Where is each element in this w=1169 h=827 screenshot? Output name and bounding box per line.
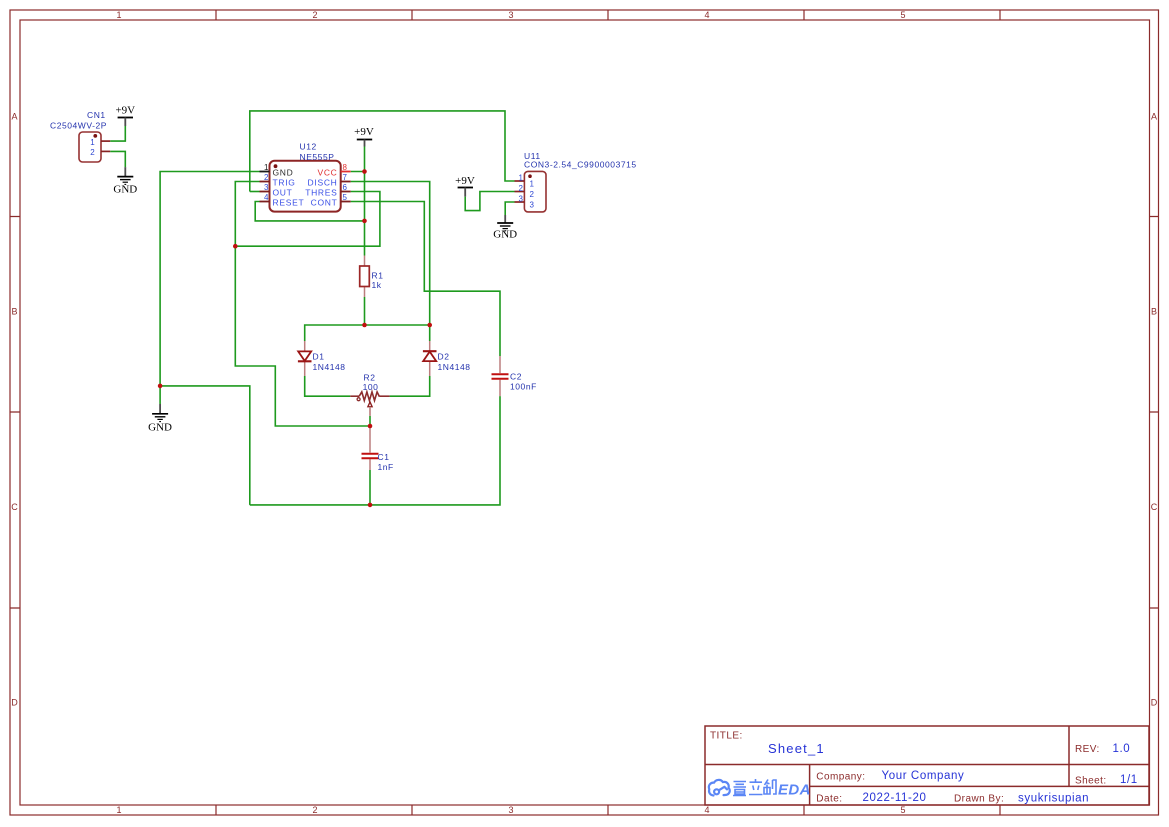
svg-text:REV:: REV: xyxy=(1075,744,1100,755)
wire VCC rail xyxy=(351,172,365,256)
svg-text:1: 1 xyxy=(116,10,121,20)
logo JLCEDA xyxy=(709,780,730,796)
wire U11 pin3 to GND xyxy=(505,202,514,215)
svg-text:4: 4 xyxy=(704,10,709,20)
wire CN1 pin2 to GND xyxy=(110,151,125,167)
svg-text:+9V: +9V xyxy=(354,126,374,138)
svg-text:2: 2 xyxy=(312,805,317,815)
node VCC junction xyxy=(362,169,367,174)
node C1 top junction xyxy=(368,424,373,429)
svg-text:5: 5 xyxy=(900,805,905,815)
svg-text:+9V: +9V xyxy=(455,175,475,187)
svg-text:GND: GND xyxy=(113,184,137,196)
wire D1 bottom to R2 xyxy=(305,376,351,396)
svg-text:OUT: OUT xyxy=(273,188,293,198)
ground GND left xyxy=(148,404,172,434)
svg-text:CN1: CN1 xyxy=(87,110,106,120)
capacitor C1 xyxy=(362,426,394,472)
svg-text:U12: U12 xyxy=(300,142,317,152)
svg-text:2: 2 xyxy=(264,173,269,182)
svg-text:8: 8 xyxy=(343,163,348,172)
svg-text:CONT: CONT xyxy=(311,198,338,208)
ground GND at CN1 xyxy=(113,167,137,195)
power +9V at U12 xyxy=(354,126,374,147)
svg-text:C1: C1 xyxy=(378,452,390,462)
svg-text:1: 1 xyxy=(530,180,535,189)
svg-text:3: 3 xyxy=(508,805,513,815)
svg-text:1k: 1k xyxy=(372,280,382,290)
U12 pin 6 THRES xyxy=(341,191,351,193)
U12 pin 4 RESET xyxy=(260,201,270,203)
svg-text:B: B xyxy=(1151,307,1157,317)
svg-text:A: A xyxy=(11,112,17,122)
connector CN1 xyxy=(50,110,110,162)
svg-text:C2: C2 xyxy=(510,372,522,382)
svg-text:TRIG: TRIG xyxy=(273,178,296,188)
capacitor C2 xyxy=(492,356,537,396)
frame column labels top xyxy=(116,10,905,20)
svg-text:6: 6 xyxy=(343,183,348,192)
svg-text:1: 1 xyxy=(116,805,121,815)
wire DISCH vertical xyxy=(351,182,430,326)
wire bottom rail xyxy=(250,396,500,505)
svg-text:D: D xyxy=(1151,698,1158,708)
svg-text:1: 1 xyxy=(519,174,524,183)
wire +9V drop at U12 xyxy=(364,147,366,172)
svg-text:D: D xyxy=(11,698,18,708)
node DISCH junction xyxy=(427,323,432,328)
svg-text:Sheet_1: Sheet_1 xyxy=(768,741,825,756)
svg-text:NE555P: NE555P xyxy=(300,152,335,162)
svg-text:TITLE:: TITLE: xyxy=(710,731,743,742)
svg-text:2: 2 xyxy=(312,10,317,20)
svg-text:1: 1 xyxy=(90,138,95,147)
svg-text:2022-11-20: 2022-11-20 xyxy=(863,792,927,804)
svg-text:3: 3 xyxy=(519,195,524,204)
svg-text:1: 1 xyxy=(264,163,269,172)
svg-text:2: 2 xyxy=(90,148,95,157)
wire RESET to VCC rail xyxy=(255,202,364,221)
wire top rail OUT net xyxy=(250,111,515,192)
svg-text:3: 3 xyxy=(264,183,269,192)
svg-text:B: B xyxy=(11,307,17,317)
svg-text:syukrisupian: syukrisupian xyxy=(1018,793,1089,805)
svg-text:C: C xyxy=(1151,502,1158,512)
svg-text:GND: GND xyxy=(148,422,172,434)
wire U11 pin2 to +9V xyxy=(465,192,514,211)
svg-text:C: C xyxy=(11,502,18,512)
svg-text:CON3-2.54_C9900003715: CON3-2.54_C9900003715 xyxy=(524,160,637,170)
svg-text:2: 2 xyxy=(519,184,524,193)
U12 pin 2 TRIG xyxy=(260,181,270,183)
node R1-diodes junction xyxy=(362,323,367,328)
wire diode top rail xyxy=(305,325,430,341)
svg-text:100nF: 100nF xyxy=(510,382,537,392)
svg-text:GND: GND xyxy=(273,168,294,178)
svg-text:1N4148: 1N4148 xyxy=(313,362,346,372)
wire R1 bottom to diode rail xyxy=(364,297,366,325)
svg-text:5: 5 xyxy=(343,193,348,202)
svg-text:R2: R2 xyxy=(364,373,376,383)
wire GND branch to bottom rail xyxy=(160,386,250,505)
svg-text:GND: GND xyxy=(493,229,517,241)
wire TRIG-THRES link xyxy=(235,192,380,247)
svg-text:2: 2 xyxy=(530,190,535,199)
svg-text:VCC: VCC xyxy=(317,168,337,178)
wire wiper to C1 top xyxy=(369,416,371,426)
resistor R1 xyxy=(360,256,384,298)
svg-text:D2: D2 xyxy=(438,352,450,362)
node GND junction xyxy=(158,384,163,389)
svg-text:4: 4 xyxy=(704,805,709,815)
svg-text:3: 3 xyxy=(508,10,513,20)
svg-text:C2504WV-2P: C2504WV-2P xyxy=(50,121,107,131)
U12 pin 1 GND xyxy=(260,171,270,173)
svg-text:100: 100 xyxy=(363,382,379,392)
svg-text:1nF: 1nF xyxy=(378,462,394,472)
svg-text:D1: D1 xyxy=(313,352,325,362)
svg-text:DISCH: DISCH xyxy=(308,178,338,188)
node RESET junction xyxy=(362,219,367,224)
svg-text:THRES: THRES xyxy=(305,188,337,198)
wire CONT to C2 xyxy=(351,202,500,357)
frame column labels bottom xyxy=(116,805,905,815)
diode D2 xyxy=(423,341,471,376)
node TRIG junction xyxy=(233,244,238,249)
svg-text:R1: R1 xyxy=(372,271,384,281)
potentiometer R2 xyxy=(350,373,389,416)
power +9V at U11 xyxy=(455,175,475,197)
U12 pin 3 OUT xyxy=(260,191,270,193)
svg-text:+9V: +9V xyxy=(115,105,135,117)
wire CN1 pin1 to +9V xyxy=(110,126,125,141)
wire GND pin1 to left xyxy=(160,172,259,405)
frame row labels xyxy=(11,112,1158,708)
U12 pin 7 DISCH xyxy=(341,181,351,183)
op-amp U12 NE555P xyxy=(260,142,351,212)
U12 pin 8 VCC xyxy=(341,171,351,173)
svg-text:Sheet:: Sheet: xyxy=(1075,776,1107,787)
svg-text:Date:: Date: xyxy=(816,794,842,805)
svg-text:1N4148: 1N4148 xyxy=(438,362,471,372)
U12 pin 5 CONT xyxy=(341,201,351,203)
wire TRIG net xyxy=(235,182,370,427)
svg-text:5: 5 xyxy=(900,10,905,20)
title block xyxy=(705,726,1149,805)
ground GND at U11 xyxy=(493,215,517,241)
diode D1 xyxy=(298,341,346,376)
svg-text:Drawn By:: Drawn By: xyxy=(954,794,1004,805)
svg-text:7: 7 xyxy=(343,173,348,182)
svg-text:1.0: 1.0 xyxy=(1113,743,1131,755)
node C1 bottom junction xyxy=(368,503,373,508)
svg-text:4: 4 xyxy=(264,193,269,202)
power +9V at CN1 xyxy=(115,105,135,127)
svg-text:A: A xyxy=(1151,112,1157,122)
svg-text:RESET: RESET xyxy=(273,198,305,208)
svg-text:EDA: EDA xyxy=(778,782,811,799)
svg-text:1/1: 1/1 xyxy=(1120,774,1138,786)
svg-text:Company:: Company: xyxy=(816,772,865,783)
svg-text:Your Company: Your Company xyxy=(882,770,965,782)
wire OUT pin3 jog xyxy=(250,191,260,193)
connector U11 CON3 xyxy=(515,151,637,212)
svg-text:3: 3 xyxy=(530,201,535,210)
wire C1 to bottom rail xyxy=(369,470,371,505)
wire R2 to D2 bottom xyxy=(390,376,430,396)
